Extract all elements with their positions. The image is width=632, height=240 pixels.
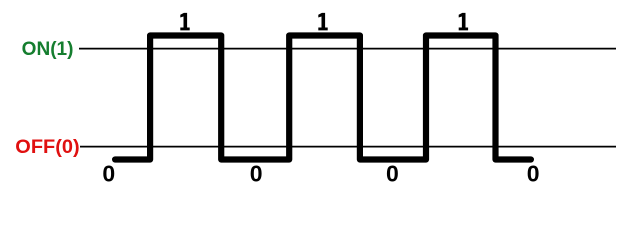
wire square-wave signal <box>115 36 531 160</box>
svg-text:OFF(0): OFF(0) <box>15 137 79 158</box>
svg-text:0: 0 <box>250 161 263 187</box>
svg-text:ON(1): ON(1) <box>22 39 74 60</box>
svg-text:0: 0 <box>527 161 540 187</box>
node ON reference line <box>79 48 616 50</box>
node OFF reference line <box>80 146 616 148</box>
node bit label 1 (pulse 3) <box>459 13 468 31</box>
svg-text:0: 0 <box>386 161 399 187</box>
svg-text:0: 0 <box>102 161 115 187</box>
node bit label 1 (pulse 1) <box>180 13 189 31</box>
node bit label 1 (pulse 2) <box>318 13 327 31</box>
